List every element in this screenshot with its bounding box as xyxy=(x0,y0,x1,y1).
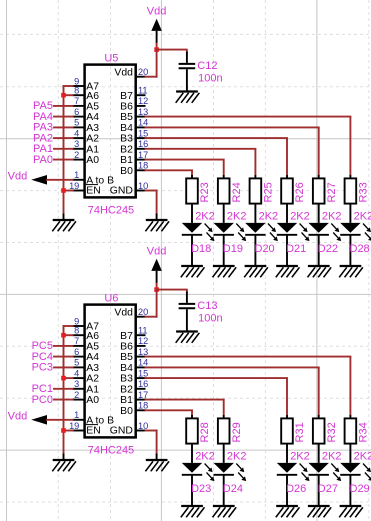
svg-text:D22: D22 xyxy=(318,243,338,255)
svg-text:B2: B2 xyxy=(120,384,133,395)
wire PC4 to U6 pin 6 xyxy=(54,356,73,358)
svg-text:13: 13 xyxy=(138,347,148,357)
svg-text:100n: 100n xyxy=(198,72,222,84)
ground below D23 xyxy=(181,506,205,517)
wire R25 feed from pin row xyxy=(254,149,256,179)
svg-text:16: 16 xyxy=(138,139,148,149)
wire U6 pin 13 to resistor column x=350.4 xyxy=(146,356,351,358)
ground below D29 xyxy=(339,506,363,517)
svg-text:R26: R26 xyxy=(294,182,306,202)
resistor R27 xyxy=(313,178,338,203)
svg-text:R29: R29 xyxy=(231,422,243,442)
svg-text:A1: A1 xyxy=(86,384,99,395)
pin stubs of U6 left xyxy=(73,326,85,431)
svg-text:17: 17 xyxy=(138,150,148,160)
power Vdd at U5 pin 1 xyxy=(8,170,47,184)
resistor R23 xyxy=(186,178,211,203)
wire PA2 to U5 pin 4 xyxy=(54,137,73,139)
svg-text:7: 7 xyxy=(74,336,79,346)
wire U6 pin 15 to resistor column x=287 xyxy=(146,377,288,379)
svg-text:B3: B3 xyxy=(120,374,133,385)
ground below D22 xyxy=(308,266,332,277)
svg-text:11: 11 xyxy=(138,326,148,336)
svg-text:8: 8 xyxy=(74,86,79,96)
wire PC1 to U6 pin 3 xyxy=(54,388,73,390)
wire PC5 to U6 pin 7 xyxy=(54,345,73,347)
wire R34 feed from pin row xyxy=(349,357,351,419)
resistor R29 xyxy=(218,418,243,443)
svg-text:B0: B0 xyxy=(120,166,133,177)
wire U5 pin 14 to resistor column x=318.7 xyxy=(146,126,319,128)
svg-text:Vdd: Vdd xyxy=(147,246,167,258)
svg-text:D21: D21 xyxy=(286,243,306,255)
svg-text:GND: GND xyxy=(110,425,133,436)
svg-text:B6: B6 xyxy=(120,342,133,353)
wire U5 pin 15 to resistor column x=287 xyxy=(146,137,288,139)
pin stubs of U5 left xyxy=(73,86,85,191)
svg-text:2K2: 2K2 xyxy=(354,450,371,462)
resistor R24 xyxy=(218,178,243,203)
junction U6 pin 19 xyxy=(61,428,66,433)
svg-text:2K2: 2K2 xyxy=(259,210,279,222)
svg-text:U5: U5 xyxy=(104,52,118,64)
svg-text:GND: GND xyxy=(110,185,133,196)
wire R27 feed from pin row xyxy=(318,127,320,178)
svg-text:D20: D20 xyxy=(255,243,275,255)
wire U6 pin 14 to resistor column x=318.7 xyxy=(146,366,319,368)
svg-text:A4: A4 xyxy=(86,112,99,123)
svg-text:R25: R25 xyxy=(263,182,275,202)
wire Vdd arrow stem to junction (U5 section) xyxy=(156,44,158,50)
ground U6 EN bus xyxy=(52,460,76,471)
svg-text:6: 6 xyxy=(74,347,79,357)
IC U5 74HC245 body xyxy=(85,65,136,198)
resistor R28 xyxy=(186,418,211,443)
svg-text:2K2: 2K2 xyxy=(227,450,247,462)
LED D27 xyxy=(309,444,342,506)
junction Vdd node U6 xyxy=(154,287,159,292)
svg-text:3: 3 xyxy=(74,139,79,149)
wire R28 feed from pin row xyxy=(191,410,193,418)
pin numbers of U5 right xyxy=(138,67,148,191)
svg-text:10: 10 xyxy=(138,181,148,191)
svg-text:R33: R33 xyxy=(358,182,370,202)
svg-text:5: 5 xyxy=(74,358,79,368)
LED D22 xyxy=(309,204,342,266)
svg-text:74HC245: 74HC245 xyxy=(88,445,134,457)
svg-text:14: 14 xyxy=(138,358,148,368)
wire PA3 to U5 pin 5 xyxy=(54,126,73,128)
svg-text:B6: B6 xyxy=(120,102,133,113)
junction Vdd node U5 xyxy=(154,47,159,52)
LED D26 xyxy=(277,444,310,506)
svg-text:1: 1 xyxy=(74,410,79,420)
svg-text:100n: 100n xyxy=(198,312,222,324)
svg-text:17: 17 xyxy=(138,390,148,400)
wire U6 pin 10 to ground xyxy=(146,431,157,455)
wire Vdd arrow to U6 pin 1 xyxy=(47,419,73,421)
ground below D20 xyxy=(244,266,268,277)
ground below D18 xyxy=(181,266,205,277)
svg-text:13: 13 xyxy=(138,107,148,117)
wire U6 pin 17 to resistor column x=223.7 xyxy=(146,399,224,401)
svg-text:A5: A5 xyxy=(86,102,99,113)
svg-text:B2: B2 xyxy=(120,144,133,155)
svg-text:Vdd: Vdd xyxy=(147,6,167,18)
svg-text:A6: A6 xyxy=(86,91,99,102)
svg-text:12: 12 xyxy=(138,96,148,106)
IC U6 74HC245 body xyxy=(85,305,136,438)
svg-text:B4: B4 xyxy=(120,123,133,134)
svg-text:D19: D19 xyxy=(223,243,243,255)
wire R29 feed from pin row xyxy=(223,400,225,419)
svg-text:A6: A6 xyxy=(86,331,99,342)
LED D20 xyxy=(245,204,278,266)
svg-text:11: 11 xyxy=(138,86,148,96)
svg-text:14: 14 xyxy=(138,118,148,128)
capacitor C13 100n xyxy=(157,289,196,332)
svg-text:2: 2 xyxy=(74,390,79,400)
wire R33 feed from pin row xyxy=(349,117,351,179)
pin numbers of U6 left xyxy=(69,316,79,431)
capacitor C12 100n xyxy=(157,49,196,92)
svg-text:20: 20 xyxy=(138,307,148,317)
svg-text:2K2: 2K2 xyxy=(195,210,215,222)
svg-text:A0: A0 xyxy=(86,155,99,166)
svg-text:U6: U6 xyxy=(104,292,118,304)
svg-text:R27: R27 xyxy=(326,182,338,202)
wire U5 pin 10 to ground xyxy=(146,191,157,215)
svg-text:B4: B4 xyxy=(120,363,133,374)
svg-text:PC3: PC3 xyxy=(32,362,53,374)
svg-text:EN: EN xyxy=(86,185,100,196)
svg-text:6: 6 xyxy=(74,107,79,117)
wire U5 pin 20 to Vdd node xyxy=(146,50,157,77)
svg-text:19: 19 xyxy=(69,181,79,191)
ground below C13 xyxy=(176,332,200,343)
ground below D21 xyxy=(276,266,300,277)
svg-text:1: 1 xyxy=(74,170,79,180)
svg-text:18: 18 xyxy=(138,161,148,171)
ground below D24 xyxy=(213,506,237,517)
wire U6 pin 20 to Vdd node xyxy=(146,290,157,317)
svg-text:D26: D26 xyxy=(286,483,306,495)
LED D29 xyxy=(340,444,371,506)
svg-text:Vdd: Vdd xyxy=(114,308,133,319)
junction U6 pin 8 xyxy=(61,333,66,338)
ground below D28 xyxy=(339,266,363,277)
svg-text:15: 15 xyxy=(138,368,148,378)
svg-text:19: 19 xyxy=(69,421,79,431)
svg-text:PA0: PA0 xyxy=(33,154,53,166)
resistor R33 xyxy=(345,178,370,203)
svg-text:B1: B1 xyxy=(120,155,133,166)
svg-text:R24: R24 xyxy=(231,182,243,202)
LED D19 xyxy=(214,204,247,266)
svg-text:C12: C12 xyxy=(197,60,217,72)
resistor R26 xyxy=(281,178,306,203)
pin names of U6 (A side) xyxy=(86,322,114,437)
pin names of U5 (A side) xyxy=(86,82,114,197)
wire ground bus left of U5 xyxy=(64,86,73,215)
svg-text:Vdd: Vdd xyxy=(114,68,133,79)
svg-text:A0: A0 xyxy=(86,395,99,406)
wire ground bus left of U6 xyxy=(64,326,73,455)
wire PC0 to U6 pin 2 xyxy=(54,399,73,401)
svg-text:74HC245: 74HC245 xyxy=(88,205,134,217)
wire R24 feed from pin row xyxy=(223,160,225,179)
svg-text:R28: R28 xyxy=(199,422,211,442)
LED D23 xyxy=(182,444,215,506)
wire PA5 to U5 pin 7 xyxy=(54,105,73,107)
svg-text:16: 16 xyxy=(138,379,148,389)
svg-text:A1: A1 xyxy=(86,144,99,155)
resistor R25 xyxy=(250,178,275,203)
LED D28 xyxy=(340,204,371,266)
pin names of U6 (B side) xyxy=(110,308,133,437)
ground below D26 xyxy=(276,506,300,517)
wire Vdd arrow stem to junction (U6 section) xyxy=(156,284,158,290)
svg-text:2: 2 xyxy=(74,150,79,160)
svg-text:PC0: PC0 xyxy=(32,394,53,406)
svg-text:EN: EN xyxy=(86,425,100,436)
svg-text:4: 4 xyxy=(74,128,79,138)
pin names of U5 (B side) xyxy=(110,68,133,197)
svg-text:B5: B5 xyxy=(120,112,133,123)
ground below D27 xyxy=(308,506,332,517)
ground U6 pin 10 xyxy=(145,460,169,471)
wire R31 feed from pin row xyxy=(286,378,288,418)
svg-text:8: 8 xyxy=(74,326,79,336)
resistor R31 xyxy=(281,418,306,443)
junction U5 pin 19 xyxy=(61,188,66,193)
svg-text:Vdd: Vdd xyxy=(8,170,28,182)
svg-text:A2: A2 xyxy=(86,134,99,145)
svg-text:R23: R23 xyxy=(199,182,211,202)
resistor R32 xyxy=(313,418,338,443)
junction U5 pin 8 xyxy=(61,93,66,98)
ground U5 pin 10 xyxy=(145,220,169,231)
pin stubs of U6 right xyxy=(136,317,146,431)
svg-text:5: 5 xyxy=(74,118,79,128)
svg-text:A3: A3 xyxy=(86,363,99,374)
wire U6 pin 18 to resistor column x=192 xyxy=(146,409,193,411)
svg-text:2K2: 2K2 xyxy=(290,450,310,462)
ground below D19 xyxy=(213,266,237,277)
svg-text:A5: A5 xyxy=(86,342,99,353)
svg-text:B3: B3 xyxy=(120,134,133,145)
wire U5 pin 13 to resistor column x=350.4 xyxy=(146,116,351,118)
svg-text:18: 18 xyxy=(138,401,148,411)
svg-text:20: 20 xyxy=(138,67,148,77)
svg-text:B5: B5 xyxy=(120,352,133,363)
svg-text:B7: B7 xyxy=(120,331,133,342)
pin numbers of U5 left xyxy=(69,76,79,191)
wire R32 feed from pin row xyxy=(318,367,320,418)
svg-text:2K2: 2K2 xyxy=(354,210,371,222)
LED D18 xyxy=(182,204,215,266)
wire PA0 to U5 pin 2 xyxy=(54,159,73,161)
wire Vdd arrow to U5 pin 1 xyxy=(47,179,73,181)
svg-text:7: 7 xyxy=(74,96,79,106)
svg-text:D23: D23 xyxy=(191,483,211,495)
wire PA1 to U5 pin 3 xyxy=(54,148,73,150)
ground below C12 xyxy=(176,92,200,103)
wire R26 feed from pin row xyxy=(286,138,288,178)
resistor R34 xyxy=(345,418,370,443)
svg-text:D18: D18 xyxy=(191,243,211,255)
svg-text:A4: A4 xyxy=(86,352,99,363)
svg-text:D27: D27 xyxy=(318,483,338,495)
wire U5 pin 16 to resistor column x=255.4 xyxy=(146,148,256,150)
power Vdd supply node C13 section xyxy=(147,246,167,284)
svg-text:B0: B0 xyxy=(120,406,133,417)
svg-text:R31: R31 xyxy=(294,422,306,442)
svg-text:3: 3 xyxy=(74,379,79,389)
svg-text:Vdd: Vdd xyxy=(8,410,28,422)
svg-text:R32: R32 xyxy=(326,422,338,442)
svg-text:2K2: 2K2 xyxy=(290,210,310,222)
pin numbers of U6 right xyxy=(138,307,148,431)
svg-text:2K2: 2K2 xyxy=(322,210,342,222)
pin stubs of U5 right xyxy=(136,77,146,191)
svg-text:10: 10 xyxy=(138,421,148,431)
svg-text:4: 4 xyxy=(74,368,79,378)
svg-text:R34: R34 xyxy=(358,422,370,442)
svg-text:A3: A3 xyxy=(86,123,99,134)
wire PC3 to U6 pin 5 xyxy=(54,366,73,368)
LED D21 xyxy=(277,204,310,266)
wire U5 pin 18 to resistor column x=192 xyxy=(146,169,193,171)
wire PA4 to U5 pin 6 xyxy=(54,116,73,118)
svg-text:12: 12 xyxy=(138,336,148,346)
svg-text:D28: D28 xyxy=(350,243,370,255)
svg-text:C13: C13 xyxy=(197,300,217,312)
wire U5 pin 17 to resistor column x=223.7 xyxy=(146,159,224,161)
wire R23 feed from pin row xyxy=(191,170,193,178)
svg-text:B1: B1 xyxy=(120,395,133,406)
svg-text:2K2: 2K2 xyxy=(227,210,247,222)
svg-text:A2: A2 xyxy=(86,374,99,385)
svg-text:2K2: 2K2 xyxy=(322,450,342,462)
svg-text:D29: D29 xyxy=(350,483,370,495)
svg-text:15: 15 xyxy=(138,128,148,138)
junction U6 pin 4 xyxy=(61,376,66,381)
svg-text:B7: B7 xyxy=(120,91,133,102)
ground U5 EN bus xyxy=(52,220,76,231)
power Vdd supply node C12 section xyxy=(147,6,167,44)
power Vdd at U6 pin 1 xyxy=(8,410,47,424)
LED D24 xyxy=(214,444,247,506)
svg-text:D24: D24 xyxy=(223,483,243,495)
svg-text:2K2: 2K2 xyxy=(195,450,215,462)
